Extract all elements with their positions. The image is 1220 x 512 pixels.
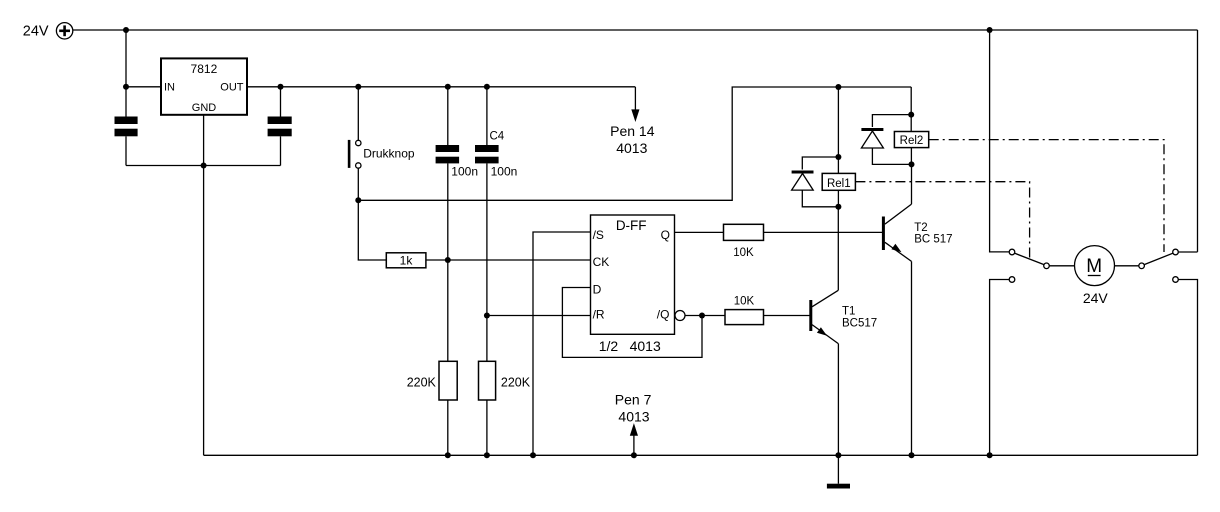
wire T2 emitter to bottom rail xyxy=(911,261,913,455)
transistor T2 collector xyxy=(885,204,912,224)
wire switch bottom down xyxy=(357,168,359,200)
svg-text:C4: C4 xyxy=(490,131,505,143)
junction relay rail x838 xyxy=(835,84,841,90)
wire C2 bottom down xyxy=(280,136,282,165)
wire top 24V rail xyxy=(73,29,1198,31)
diode D1 xyxy=(792,172,814,190)
wire OUT to 12V rail xyxy=(247,86,635,88)
svg-text:D-FF: D-FF xyxy=(616,218,647,233)
resistor R3 220K xyxy=(439,361,457,400)
junction 12V rail x280 xyxy=(278,84,284,90)
contact arm left xyxy=(1015,253,1044,264)
svg-text:10K: 10K xyxy=(734,296,755,308)
relay coil Rel2 box xyxy=(894,132,928,148)
relay coil Rel1 branch riser xyxy=(837,87,839,207)
svg-text:Q: Q xyxy=(661,228,670,242)
svg-text:100n: 100n xyxy=(451,165,478,179)
junction 12V rail x486 xyxy=(484,84,490,90)
junction bottom rail x911 xyxy=(909,452,915,458)
contact throw lower left xyxy=(1009,277,1015,283)
label 100n C4 xyxy=(491,165,518,179)
label T1 xyxy=(842,306,877,330)
wire x126 IN node down to capacitor xyxy=(125,87,127,117)
svg-text:24V: 24V xyxy=(1083,290,1109,306)
wire 1k to CK xyxy=(426,259,591,261)
label Pen 7 xyxy=(615,392,652,425)
wire Q to 10K xyxy=(675,231,724,233)
junction /R node xyxy=(484,313,490,319)
linkage Rel2 dash-dot xyxy=(929,140,1164,252)
transistor T2 base bar xyxy=(882,217,885,251)
junction Rel2 bottom xyxy=(909,161,915,167)
resistor R6 10K bottom xyxy=(725,310,764,325)
wire Rel1 diode branch top xyxy=(802,157,838,170)
wire C1 bottom down xyxy=(125,136,127,165)
transistor T1 base bar xyxy=(809,300,812,331)
wire ground bus under regulator xyxy=(126,165,281,167)
bubble /Q inverter xyxy=(675,311,685,321)
wire T2 collector riser xyxy=(911,164,913,204)
wire lower left throw to bottom rail xyxy=(990,280,1010,456)
junction bottom rail x838 xyxy=(835,452,841,458)
label 10K R5 xyxy=(733,247,754,259)
supply label 24V xyxy=(23,23,49,39)
junction IN node xyxy=(123,84,129,90)
resistor R5 10K top xyxy=(724,224,764,240)
junction Rel2 top xyxy=(908,112,914,118)
resistor R4 220K xyxy=(479,361,496,400)
wire /S to flip-flop xyxy=(533,232,591,455)
label Pen 14 xyxy=(610,123,655,156)
svg-text:GND: GND xyxy=(192,102,217,114)
svg-text:IN: IN xyxy=(164,82,175,94)
wire switched node to relay riser xyxy=(358,87,911,200)
contact throw lower right xyxy=(1173,277,1179,283)
contact throw upper right xyxy=(1173,249,1179,255)
wire pen14 drop xyxy=(634,87,636,111)
svg-text:4013: 4013 xyxy=(630,338,661,354)
svg-text:/S: /S xyxy=(593,228,604,242)
regulator U1 7812 box xyxy=(161,58,247,114)
svg-text:1k: 1k xyxy=(400,253,414,267)
svg-text:Rel1: Rel1 xyxy=(827,178,851,190)
motor M1 xyxy=(1075,246,1115,286)
wire 10K to T1 base xyxy=(764,315,810,317)
label T2 xyxy=(914,222,952,245)
svg-text:7812: 7812 xyxy=(191,62,218,76)
relay coil Rel1 box xyxy=(822,173,855,190)
capacitor C2 output xyxy=(268,117,292,137)
svg-text:CK: CK xyxy=(593,255,610,269)
linkage Rel1 dash-dot xyxy=(855,182,1029,259)
svg-text:BC517: BC517 xyxy=(842,318,877,330)
label Drukknop xyxy=(363,147,415,161)
junction bottom rail pen7 xyxy=(631,452,637,458)
contact arm right xyxy=(1144,253,1173,264)
junction 12V rail x358 xyxy=(355,84,361,90)
wire T1 emitter to bottom rail xyxy=(837,344,839,456)
svg-text:220K: 220K xyxy=(407,376,437,390)
flip-flop U2 D-FF box xyxy=(591,215,675,334)
junction gnd bus xyxy=(201,163,207,169)
label 220K R4 xyxy=(501,376,531,390)
junction bottom rail x486 xyxy=(484,452,490,458)
relay coil Rel2 branch riser xyxy=(910,87,912,164)
junction bottom rail x447 xyxy=(445,452,451,458)
wire pole to motor left xyxy=(1049,265,1074,267)
junction 12V rail x447 xyxy=(445,84,451,90)
svg-text:OUT: OUT xyxy=(220,82,244,94)
wire pen7 stub xyxy=(633,435,635,456)
wire gnd bus down to bottom rail xyxy=(203,166,205,456)
wire C4 bottom through /R node to 220K xyxy=(486,163,488,361)
wire ground stub xyxy=(837,455,839,483)
contact pole left xyxy=(1044,263,1050,269)
capacitor C4 100n xyxy=(475,145,499,163)
wire C3 bottom through CK node to 220K xyxy=(447,163,449,361)
wire Rel1 diode branch bottom xyxy=(802,190,838,207)
svg-text:T1: T1 xyxy=(842,306,855,318)
label 10K R6 xyxy=(734,296,755,308)
ground symbol xyxy=(827,484,850,489)
label C4 xyxy=(490,131,505,143)
wire x126 from rail to IN node xyxy=(125,30,127,87)
junction top rail at x989.6 xyxy=(987,27,993,33)
svg-text:100n: 100n xyxy=(491,165,518,179)
switch S1 drukknop contacts xyxy=(348,140,361,168)
wire D feedback from /Q node xyxy=(562,288,702,358)
wire /Q to 10K xyxy=(685,315,725,317)
supply plus terminal xyxy=(56,23,72,39)
wire switched node down to 1k xyxy=(358,200,386,260)
svg-text:Pen 7: Pen 7 xyxy=(615,392,652,408)
contact pole right xyxy=(1139,263,1145,269)
arrow pen7 xyxy=(631,425,638,436)
wire R4 down to bottom rail xyxy=(486,400,488,455)
svg-text:/R: /R xyxy=(593,308,605,322)
junction Rel1 bottom xyxy=(835,204,841,210)
wire left contact feed from top rail xyxy=(990,30,1010,252)
wire Rel2 diode branch bottom xyxy=(872,148,911,164)
junction Rel1 top xyxy=(835,154,841,160)
resistor R1 1k xyxy=(386,253,426,268)
label 220K R3 xyxy=(407,376,437,390)
junction CK node xyxy=(445,257,451,263)
wire IN node to regulator xyxy=(126,86,161,88)
wire 220K down to bottom rail xyxy=(447,400,449,455)
junction /Q node xyxy=(699,313,705,319)
wire Rel2 diode branch top xyxy=(872,115,911,127)
svg-text:Drukknop: Drukknop xyxy=(363,147,415,161)
svg-text:4013: 4013 xyxy=(616,140,647,156)
wire motor right to pole xyxy=(1115,265,1139,267)
wire x486 rail to cap C4 xyxy=(486,87,488,145)
svg-text:M: M xyxy=(1086,256,1102,277)
svg-text:1/2: 1/2 xyxy=(599,338,619,354)
label 100n C3 xyxy=(451,165,478,179)
transistor T2 emitter xyxy=(885,242,912,261)
label motor 24V xyxy=(1083,290,1109,306)
wire bottom rail xyxy=(204,454,1198,456)
wire T1 collector riser xyxy=(837,207,839,290)
svg-text:/Q: /Q xyxy=(657,308,670,322)
svg-text:10K: 10K xyxy=(733,247,754,259)
junction bottom rail x533 xyxy=(530,452,536,458)
wire x280 down to capacitor xyxy=(280,87,282,117)
svg-text:24V: 24V xyxy=(23,23,49,39)
wire 10K to T2 base xyxy=(764,231,883,233)
junction top rail at x126 xyxy=(123,27,129,33)
junction switched node xyxy=(355,197,361,203)
svg-text:Pen 14: Pen 14 xyxy=(610,123,655,139)
wire lower right throw to bottom rail xyxy=(1178,280,1197,456)
wire /R node to flip-flop xyxy=(487,315,591,317)
svg-text:D: D xyxy=(593,283,602,297)
svg-text:4013: 4013 xyxy=(618,408,649,424)
svg-text:BC 517: BC 517 xyxy=(914,234,952,246)
wire right contact feed from top rail xyxy=(1178,30,1197,252)
label 1/2 4013 xyxy=(599,338,661,354)
wire GND pin down xyxy=(203,115,205,166)
svg-text:T2: T2 xyxy=(914,222,927,234)
diode D2 xyxy=(861,130,883,149)
wire x358 down to switch xyxy=(357,87,359,141)
capacitor C1 input xyxy=(115,117,138,137)
transistor T1 collector xyxy=(812,290,838,307)
junction bottom rail x989 xyxy=(987,452,993,458)
svg-text:Rel2: Rel2 xyxy=(900,135,924,147)
wire x447 rail to cap xyxy=(447,87,449,145)
transistor T1 emitter xyxy=(812,325,838,344)
capacitor C3 100n xyxy=(436,145,460,163)
contact throw upper left xyxy=(1009,249,1015,255)
arrow pen14 xyxy=(632,110,639,121)
svg-text:220K: 220K xyxy=(501,376,531,390)
